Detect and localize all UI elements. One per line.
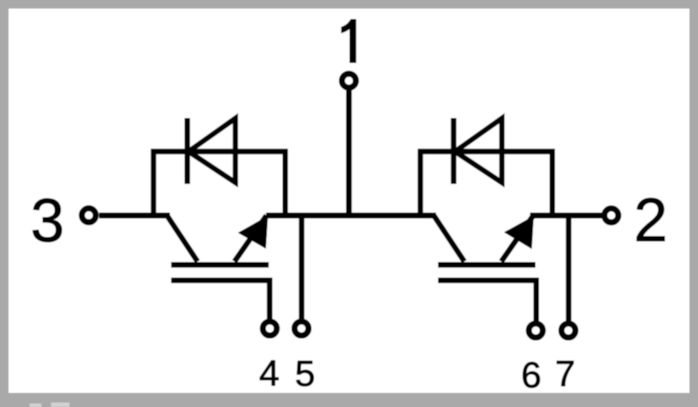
transistor Q2 emitter line — [501, 216, 533, 262]
svg-text:3: 3 — [31, 187, 65, 255]
svg-text:2: 2 — [634, 186, 668, 254]
svg-text:5: 5 — [295, 353, 315, 394]
wire terminal 7 drop — [566, 216, 572, 323]
bottom-edge light marks — [30, 404, 42, 407]
wire diode D1 loop (left leg, top, right leg) — [154, 152, 286, 219]
terminal 3 — [82, 208, 96, 222]
wire terminal 5 drop — [299, 216, 305, 323]
transistor Q1 emitter line — [235, 216, 267, 262]
svg-text:4: 4 — [259, 353, 279, 394]
diode D2 cathode bar — [451, 118, 457, 184]
terminal 2 — [604, 208, 618, 222]
diode D2 triangle — [455, 118, 502, 182]
transistor Q2 emitter arrow — [504, 216, 534, 249]
transistor Q2 collector slant — [434, 216, 465, 262]
transistor Q1 collector slant — [167, 216, 198, 262]
transistor Q2 body bar — [438, 262, 536, 268]
terminal 1 — [342, 74, 356, 88]
transistor Q1 emitter arrow — [238, 216, 268, 249]
transistor Q1 body bar — [171, 262, 269, 268]
svg-text:6: 6 — [521, 355, 541, 396]
wire rail Q2 emitter to terminal 2 — [530, 213, 602, 219]
diode D2 loop wire — [420, 152, 552, 219]
transistor Q2 gate line to terminal 6 — [438, 280, 536, 322]
terminal 7 — [561, 324, 575, 338]
wire terminal1 drop — [346, 89, 352, 218]
diode D1 triangle — [189, 118, 236, 182]
label 1 — [341, 19, 356, 63]
wire terminal3 to Q1 collector — [99, 213, 170, 219]
terminal 5 — [295, 322, 309, 336]
diode D1 cathode bar — [185, 118, 191, 184]
svg-text:7: 7 — [555, 353, 575, 394]
terminal 6 — [529, 324, 543, 338]
transistor Q1 gate line to terminal 4 — [171, 280, 269, 321]
terminal 4 — [263, 322, 277, 336]
node rail between Q1 emitter and Q2 collector — [266, 213, 436, 219]
